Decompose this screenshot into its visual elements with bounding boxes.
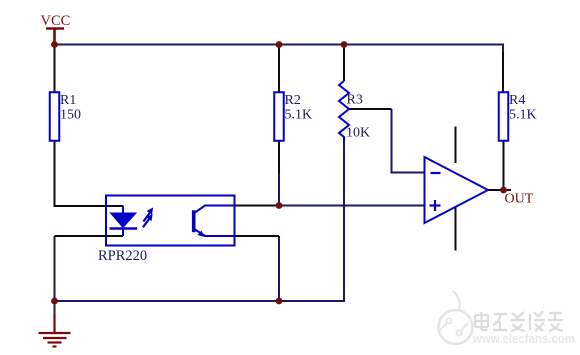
wire top rail [55, 45, 504, 54]
phototransistor base bar [192, 210, 196, 232]
phototransistor collector [195, 206, 235, 213]
resistor R1 [50, 92, 60, 141]
LED emission arrow 1 [143, 208, 152, 221]
watermark chinese text (approx glyph strokes) [475, 311, 563, 331]
resistor R4 [499, 92, 509, 141]
junction R2/collector node [276, 202, 283, 209]
wire cathode run [54, 236, 56, 301]
optocoupler U RPR220 box [106, 196, 235, 246]
power VCC symbol [46, 29, 64, 45]
wire emitter down to rail [278, 236, 280, 301]
svg-text:www.elecfans.com: www.elecfans.com [472, 332, 575, 346]
LED triangle [111, 213, 137, 228]
pin R2 top [278, 45, 280, 92]
op-amp minus sign [431, 172, 441, 174]
wire bottom rail [55, 141, 345, 301]
pin op-amp output [488, 189, 511, 191]
junction emitter/ground rail node [276, 298, 283, 305]
phototransistor emitter [195, 230, 235, 237]
svg-text:10K: 10K [346, 126, 370, 141]
op-amp U1 triangle [425, 157, 489, 223]
resistor R2 [274, 92, 284, 141]
junction ground node [51, 298, 58, 305]
svg-text:R3: R3 [347, 93, 363, 108]
svg-text:R2: R2 [285, 93, 301, 108]
LED anode stub [122, 206, 124, 215]
pin op-amp V- [455, 207, 457, 251]
svg-text:R1: R1 [60, 93, 76, 108]
pin R1 top [54, 45, 56, 92]
junction VCC node [51, 41, 58, 48]
wire collector node to op-amp plus [277, 205, 425, 207]
pin op-amp V+ [455, 127, 457, 164]
LED cathode bar [110, 227, 138, 230]
pin opto emitter [235, 235, 280, 237]
pin R4 bottom [503, 141, 505, 190]
wire cathode horizontal [55, 235, 124, 237]
watermark logo circle [439, 291, 473, 344]
wire R3 tap to op-amp minus [392, 109, 425, 173]
pin R3 tap [348, 108, 392, 110]
wire R2 lower [278, 172, 280, 206]
svg-text:5.1K: 5.1K [509, 108, 537, 123]
pin R3 top [343, 45, 345, 81]
pin R2 bottom [278, 141, 280, 173]
junction R3 top node [341, 41, 348, 48]
svg-text:OUT: OUT [505, 192, 534, 207]
pin R4 top [502, 52, 504, 92]
svg-text:150: 150 [60, 108, 81, 123]
op-amp plus sign [430, 200, 441, 211]
emitter arrowhead [198, 231, 205, 238]
LED emission arrow 2 [143, 215, 152, 228]
svg-text:R4: R4 [509, 93, 525, 108]
svg-text:5.1K: 5.1K [285, 108, 313, 123]
svg-text:RPR220: RPR220 [98, 248, 147, 264]
junction R2 top node [276, 41, 283, 48]
ground symbol [54, 301, 56, 317]
junction output node [500, 187, 507, 194]
svg-text:VCC: VCC [41, 13, 71, 29]
resistor R3 (pot zigzag) [339, 81, 349, 141]
pin opto collector [235, 205, 278, 207]
pin R1 bottom + anode wire [55, 141, 124, 206]
LED cathode stub [122, 229, 124, 236]
